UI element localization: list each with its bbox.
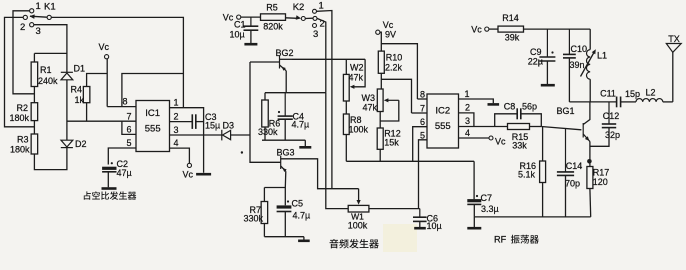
- svg-text:2: 2: [465, 103, 470, 113]
- wire R16 top: [542, 127, 544, 161]
- svg-text:1: 1: [174, 98, 179, 108]
- wire IC2 pin2: [459, 113, 474, 127]
- svg-text:2: 2: [20, 22, 25, 33]
- svg-text:IC1: IC1: [145, 108, 160, 119]
- op-amp IC2 555 timer: [427, 94, 459, 148]
- wire rail to C7: [473, 161, 475, 199]
- wire K2-2 down to emitter node: [317, 18, 326, 92]
- svg-text:15k: 15k: [384, 138, 399, 148]
- ground RF rail: [473, 217, 475, 227]
- svg-text:120: 120: [593, 177, 608, 187]
- svg-text:2: 2: [174, 112, 179, 122]
- svg-text:2.2k: 2.2k: [385, 63, 403, 73]
- switch K2 contact 3: [313, 24, 317, 28]
- svg-text:R5: R5: [266, 3, 278, 13]
- resistor R16 5.1k: [540, 161, 546, 183]
- ground IC2 pin1: [488, 103, 500, 106]
- svg-text:4.7µ: 4.7µ: [293, 211, 311, 221]
- svg-text:BG3: BG3: [276, 148, 294, 158]
- svg-text:9V: 9V: [385, 30, 396, 40]
- wire L2 to antenna: [663, 101, 673, 103]
- node base-feed vertical: [250, 62, 281, 162]
- wire mid ground rail: [346, 160, 474, 162]
- svg-text:Vc: Vc: [495, 137, 506, 147]
- wire emitter node down to W1 left: [326, 93, 348, 209]
- svg-text:7: 7: [420, 104, 425, 114]
- wire IC2 pin4 to Vc: [459, 137, 489, 139]
- svg-text:3.3µ: 3.3µ: [481, 204, 499, 214]
- resistor R5 820k: [261, 14, 286, 21]
- potentiometer W2 47k: [343, 74, 349, 101]
- ground below C1: [244, 43, 257, 46]
- wiper W1: [358, 189, 360, 201]
- wire K1-3 to diode column: [34, 25, 67, 73]
- svg-text:D3: D3: [223, 121, 235, 131]
- op-amp IC1 555 timer: [136, 101, 170, 152]
- wire R6 top: [264, 93, 266, 100]
- svg-text:3: 3: [36, 26, 41, 37]
- svg-text:C1: C1: [234, 20, 246, 30]
- svg-text:56p: 56p: [522, 102, 537, 112]
- switch K2 pole: [301, 17, 305, 21]
- wire R7 top branch: [264, 187, 285, 189]
- wiper W3: [380, 100, 399, 121]
- svg-text:6: 6: [126, 125, 131, 135]
- capacitor C6 10u: [419, 209, 421, 218]
- capacitor C2 47u: [111, 162, 113, 164]
- svg-text:R2: R2: [17, 103, 29, 113]
- svg-text:C7: C7: [481, 193, 493, 203]
- wiper W2: [354, 59, 366, 87]
- wire W3 bottom: [379, 112, 381, 129]
- wire Vc9V node: [380, 32, 381, 51]
- svg-text:BG1: BG1: [556, 106, 574, 116]
- capacitor C8 56p branch: [495, 114, 517, 127]
- wire R4 bottom: [86, 103, 88, 122]
- capacitor C9 22u: [546, 29, 548, 57]
- switch K2 arm: [305, 17, 313, 19]
- svg-text:15p: 15p: [625, 89, 640, 99]
- wire R16 bottom: [542, 183, 544, 217]
- wire audio bottom rail: [264, 236, 304, 238]
- wire K1-2 to R2/R3 junction: [5, 17, 35, 126]
- wire C3 to ground rail: [196, 121, 204, 123]
- svg-text:5: 5: [126, 138, 131, 148]
- svg-text:R3: R3: [17, 135, 29, 145]
- switch K2 contact 1: [313, 9, 317, 13]
- svg-text:D1: D1: [74, 64, 86, 74]
- svg-text:R10: R10: [386, 53, 403, 63]
- svg-text:C11: C11: [600, 89, 616, 99]
- diode D2: [61, 140, 73, 147]
- capacitor C5 4.7u: [287, 200, 289, 202]
- svg-text:6: 6: [420, 117, 425, 127]
- svg-text:R4: R4: [70, 85, 82, 95]
- wire IC1 pin1 to ground rail: [170, 108, 204, 173]
- svg-text:330k: 330k: [258, 127, 278, 137]
- transistor BG3: [280, 156, 282, 169]
- capacitor C3 15u: [191, 114, 193, 129]
- resistor R12 15k: [377, 128, 383, 149]
- svg-text:33k: 33k: [512, 141, 527, 151]
- svg-text:W2: W2: [350, 63, 364, 73]
- wire W2 to R8: [345, 101, 347, 114]
- wire W2 top tie: [345, 59, 347, 74]
- svg-text:D2: D2: [75, 139, 87, 149]
- svg-text:L1: L1: [597, 51, 607, 61]
- wire IC2 pin8: [417, 98, 427, 100]
- wire Vc branch to pin8: [381, 44, 417, 99]
- wire IC1 pin3: [170, 134, 222, 136]
- wire BG3 collector path: [281, 159, 359, 189]
- terminal Vc pin4: [187, 163, 191, 167]
- svg-text:39k: 39k: [505, 33, 520, 43]
- switch K1 contact 2: [23, 15, 27, 19]
- inductor L1: [589, 29, 591, 49]
- svg-text:47k: 47k: [349, 73, 364, 83]
- wire IC2 pin3: [459, 126, 508, 128]
- wire IC2 pin1 to ground: [459, 99, 494, 103]
- wire BG2 collector line: [292, 58, 365, 60]
- wire Vc to R5: [241, 16, 261, 18]
- wire R1 top branch: [34, 52, 67, 54]
- wire R2-R3: [33, 121, 35, 134]
- svg-text:3: 3: [465, 116, 470, 126]
- svg-text:4: 4: [174, 138, 179, 148]
- resistor R17 120: [587, 167, 593, 189]
- wire IC1 pin8: [107, 106, 136, 108]
- wire D3 output: [231, 134, 250, 136]
- wire C11 to L2: [621, 101, 636, 103]
- svg-text:C12: C12: [603, 111, 620, 121]
- wire BG1 emitter down: [589, 142, 591, 167]
- svg-text:1: 1: [319, 1, 324, 12]
- potentiometer W3 47k: [377, 89, 383, 112]
- resistor R10 2.2k: [378, 51, 384, 73]
- resistor R6 330k: [262, 100, 269, 127]
- svg-text:Vc: Vc: [183, 170, 194, 180]
- ground below C9: [541, 84, 555, 87]
- svg-text:1: 1: [465, 89, 470, 99]
- svg-text:47k: 47k: [363, 103, 378, 113]
- wire K1-1 to R1/R2 junction: [13, 11, 34, 94]
- svg-text:4: 4: [465, 128, 470, 138]
- svg-text:10µ: 10µ: [427, 221, 442, 231]
- svg-text:Vc: Vc: [223, 13, 234, 23]
- svg-text:1: 1: [36, 1, 41, 12]
- wire IC2 pin5 to C6 junction: [419, 140, 428, 209]
- switch K1 contact 1: [30, 9, 34, 13]
- wire IC2 pin6 to rail: [413, 127, 427, 162]
- resistor R4 1k: [83, 87, 90, 103]
- wire R6 bottom: [264, 127, 266, 140]
- svg-text:L2: L2: [645, 88, 655, 98]
- diode D3: [221, 130, 223, 141]
- svg-text:820k: 820k: [263, 22, 283, 32]
- svg-text:K2: K2: [293, 2, 305, 13]
- inductor L2: [636, 99, 663, 102]
- wire R12 bottom to rail: [379, 149, 381, 161]
- svg-text:R17: R17: [593, 168, 610, 178]
- svg-text:8: 8: [420, 90, 425, 100]
- resistor R3 180k: [31, 134, 38, 154]
- svg-text:K1: K1: [44, 2, 56, 13]
- svg-text:W3: W3: [362, 93, 376, 103]
- svg-text:180k: 180k: [10, 145, 30, 155]
- wire W1 right to C6 junction: [369, 208, 420, 210]
- capacitor C8 56p: [516, 108, 518, 119]
- capacitor C11 15p: [616, 97, 618, 108]
- resistor R14 39k: [498, 26, 524, 32]
- wire R3 bottom to D2 anode: [34, 148, 67, 170]
- svg-text:3: 3: [174, 125, 179, 135]
- resistor R8 100k: [343, 114, 349, 135]
- wire diode column: [66, 80, 68, 140]
- svg-text:555: 555: [435, 121, 451, 132]
- diode D1: [61, 71, 73, 73]
- svg-text:BG2: BG2: [275, 48, 293, 58]
- capacitor C12 32p: [608, 102, 610, 124]
- svg-text:180k: 180k: [10, 113, 30, 123]
- wire IC1 pin6: [122, 121, 136, 134]
- svg-text:555: 555: [145, 124, 161, 135]
- svg-text:C14: C14: [566, 161, 583, 171]
- wire IC1 pin7: [67, 120, 136, 122]
- wire K2-1 to W1 wiper column: [317, 11, 332, 189]
- wire pin8 branch to top bus: [122, 74, 183, 107]
- svg-text:C9: C9: [530, 47, 542, 57]
- svg-text:C8: C8: [504, 102, 516, 112]
- svg-text:240k: 240k: [38, 76, 58, 86]
- capacitor C1 10u: [250, 17, 252, 26]
- svg-text:R14: R14: [502, 13, 519, 23]
- wire BG2 emitter down: [285, 71, 287, 93]
- resistor R7 330k: [261, 202, 268, 224]
- switch K1 arm: [30, 16, 47, 17]
- capacitor C4 4.7u: [284, 93, 286, 116]
- wire R10 bottom node: [380, 73, 382, 89]
- svg-text:7: 7: [126, 112, 131, 122]
- potentiometer W1 100k: [348, 205, 369, 212]
- wire IC1 pin5 to C2: [108, 148, 136, 165]
- wire R17 bottom: [589, 189, 592, 217]
- wire R14 to L1 top corner: [524, 28, 591, 30]
- svg-text:Vc: Vc: [383, 20, 394, 30]
- capacitor C10 39n: [568, 29, 570, 54]
- wire IC2 pin7: [412, 112, 428, 114]
- wire Vc to R14: [489, 28, 498, 30]
- wire R1-R2: [33, 87, 35, 103]
- capacitor C14 70p: [565, 129, 567, 172]
- wire R8 bottom to rail: [345, 135, 347, 162]
- svg-text:39n: 39n: [570, 60, 585, 70]
- svg-text:RF: RF: [494, 235, 507, 245]
- wire audio ground rail: [262, 139, 305, 141]
- wire IC1 pin4 to Vc: [170, 148, 190, 163]
- wire Vc down to pin8: [106, 59, 108, 107]
- ground below C6: [414, 227, 426, 230]
- wire BG3 emitter down: [284, 171, 287, 187]
- svg-text:32p: 32p: [605, 130, 620, 140]
- wire IC1 pin2: [170, 121, 193, 123]
- ground for IC1 pin1/C3: [196, 173, 211, 176]
- svg-text:8: 8: [122, 97, 127, 107]
- wire C2 to ground: [107, 172, 109, 188]
- wire R5 to K2: [286, 17, 298, 20]
- label duty-cycle generator: [84, 191, 91, 199]
- transistor BG1: [582, 123, 584, 138]
- wire BG2 base: [250, 61, 280, 63]
- svg-text:100k: 100k: [348, 221, 368, 231]
- transistor BG2: [279, 56, 281, 69]
- terminal Vc pin4 IC2: [489, 136, 493, 140]
- switch K2 contact 2: [313, 16, 317, 20]
- svg-text:5.1k: 5.1k: [518, 170, 536, 180]
- switch K1 pole: [47, 15, 51, 19]
- svg-text:C10: C10: [571, 44, 588, 54]
- svg-text:R8: R8: [350, 115, 362, 125]
- ground below C2: [102, 187, 117, 190]
- svg-text:47µ: 47µ: [117, 168, 132, 178]
- wire RF node line: [569, 101, 616, 103]
- svg-text:10µ: 10µ: [230, 30, 245, 40]
- resistor R15 33k: [508, 124, 530, 130]
- ground audio bottom: [303, 237, 305, 240]
- wire top bus K1 pole to pin1: [51, 17, 183, 107]
- wire BG1 collector: [583, 102, 590, 125]
- resistor R2 180k: [31, 103, 38, 121]
- svg-text:3: 3: [313, 29, 318, 40]
- svg-text:1k: 1k: [74, 95, 84, 105]
- wire emitter node horizontal: [265, 92, 326, 94]
- svg-text:TX: TX: [668, 34, 680, 44]
- capacitor C7 3.3u: [476, 195, 478, 197]
- svg-text:100k: 100k: [349, 125, 369, 135]
- ground stub audio rail: [304, 140, 306, 146]
- svg-text:4.7µ: 4.7µ: [292, 120, 310, 130]
- resistor R1 240k: [31, 62, 38, 87]
- svg-text:22µ: 22µ: [528, 57, 543, 67]
- svg-text:IC2: IC2: [435, 106, 450, 117]
- stray dot: [241, 151, 243, 153]
- label audio generator: [330, 239, 339, 248]
- svg-text:R1: R1: [40, 65, 52, 75]
- svg-text:C5: C5: [292, 199, 304, 209]
- switch K1 contact 3: [30, 23, 34, 27]
- svg-text:Vc: Vc: [471, 25, 482, 35]
- wire RF bottom rail: [474, 216, 590, 218]
- svg-text:330k: 330k: [244, 214, 264, 224]
- wire R7 bottom: [263, 224, 265, 237]
- svg-text:Vc: Vc: [99, 42, 110, 52]
- svg-text:70p: 70p: [565, 179, 580, 189]
- wire R15 to node: [530, 126, 542, 128]
- wire node to BG1 base: [541, 127, 581, 130]
- svg-text:5: 5: [420, 130, 425, 140]
- wire R4 top to Vc line: [87, 74, 108, 87]
- svg-text:15µ: 15µ: [205, 121, 220, 131]
